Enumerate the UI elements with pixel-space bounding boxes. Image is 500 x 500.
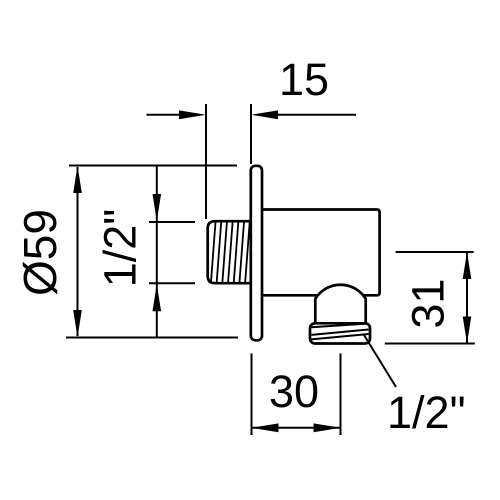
- dimension 30 arrow left: [252, 423, 279, 432]
- dimension 1/2 inch tick top: [149, 221, 195, 223]
- dimension 15 extension line left: [205, 104, 207, 219]
- dimension 31 arrow up: [463, 252, 472, 279]
- dimension 15 line left segment: [147, 114, 182, 116]
- thread hatch line 3: [222, 222, 227, 282]
- wall flange plate: [251, 166, 262, 340]
- dimension 31 extension line bottom: [385, 343, 475, 345]
- dimension D59 extension line bottom: [66, 337, 238, 339]
- dimension 30 extension line left: [251, 353, 253, 435]
- thread hatch line 7: [245, 222, 250, 282]
- thread hatch line 4: [228, 222, 233, 282]
- dimension 1/2 inch vertical line: [156, 166, 158, 338]
- dimension D59 line: [77, 167, 79, 336]
- thread hatch line 5: [234, 222, 239, 282]
- thread hatch line 2: [217, 222, 222, 282]
- dimension 1/2 inch arrow up: [153, 284, 162, 311]
- dimension 30 line: [252, 427, 341, 429]
- outlet cap nut: [310, 323, 370, 343]
- dimension 30 extension line right: [340, 353, 342, 435]
- dimension 1/2 inch arrow down: [153, 194, 162, 221]
- dimension D59 arrow up: [73, 166, 82, 194]
- svg-text:1/2": 1/2": [95, 209, 146, 288]
- dimension 15 line right segment: [276, 114, 356, 116]
- dimension 15 arrow left: [179, 110, 206, 119]
- dimension 30 arrow right: [314, 423, 341, 432]
- cap thread line 1: [312, 324, 369, 328]
- cap thread line 3: [312, 334, 369, 339]
- svg-text:30: 30: [269, 366, 319, 417]
- dimension 31 arrow down: [463, 317, 472, 344]
- threaded inlet pipe outline: [208, 221, 251, 283]
- svg-text:1/2": 1/2": [387, 387, 466, 438]
- svg-text:Ø59: Ø59: [14, 209, 66, 296]
- svg-text:31: 31: [403, 279, 454, 329]
- thread hatch line 1: [211, 222, 216, 282]
- dimension 31 line: [466, 252, 468, 344]
- dimension 31 extension line top: [396, 251, 474, 253]
- dimension 1/2 inch tick bottom: [149, 282, 195, 284]
- dimension D59 extension line top: [69, 165, 237, 167]
- dimension 15 arrow right: [251, 110, 278, 119]
- outlet dome and nozzle: [315, 285, 365, 323]
- dimension 15 extension line right: [250, 104, 252, 164]
- leader line to outlet thread: [364, 335, 396, 387]
- valve body: [262, 210, 380, 296]
- dimension D59 arrow down: [73, 310, 82, 338]
- cap thread line 2: [312, 330, 369, 335]
- svg-text:15: 15: [279, 54, 329, 105]
- thread hatch line 6: [240, 222, 245, 282]
